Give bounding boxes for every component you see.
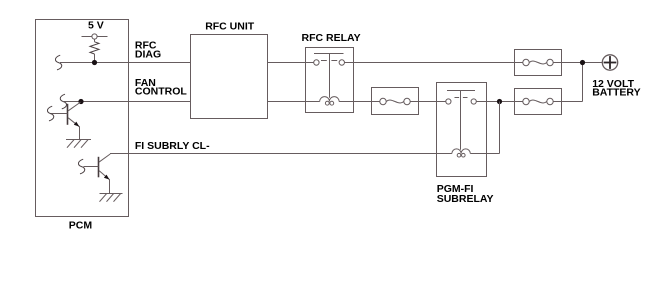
RFC relay K1 box xyxy=(306,48,354,113)
wire break squiggle (Q1 base) xyxy=(47,106,53,121)
svg-text:SUBRELAY: SUBRELAY xyxy=(437,193,494,205)
svg-text:BATTERY: BATTERY xyxy=(592,87,640,99)
wire FAN CONTROL (PCM to RFC unit) xyxy=(64,101,191,103)
junction node (battery feed) xyxy=(580,60,585,65)
wire (fuse F1 to battery) xyxy=(553,62,602,64)
wire break squiggle (Q2 base) xyxy=(78,159,84,174)
wire RFC DIAG (PCM to RFC unit) xyxy=(60,62,190,64)
svg-text:PCM: PCM xyxy=(69,219,93,231)
PGM-FI subrelay K2 box xyxy=(437,83,487,177)
RFC unit U1 box xyxy=(191,35,268,119)
wire (RFC relay contact to fuse F1) xyxy=(345,62,523,64)
wire (RFC unit to RFC relay coil) xyxy=(268,101,320,103)
fuse F2 xyxy=(372,88,419,115)
PCM box xyxy=(36,20,129,217)
ground (Q1 emitter) xyxy=(66,140,91,148)
wire (subrelay contact to fuse F3) xyxy=(476,101,523,103)
wire break squiggle (FAN CONTROL) xyxy=(60,94,66,109)
svg-text:DIAG: DIAG xyxy=(135,48,161,60)
transistor Q1 (fan control driver) xyxy=(51,102,81,139)
label PGM-FI SUBRELAY xyxy=(437,183,494,205)
fuse F1 xyxy=(515,50,562,76)
transistor Q2 (FI subrelay driver) xyxy=(84,154,111,194)
junction node (Q1 collector to FAN CONTROL wire) xyxy=(78,99,83,104)
wire (fuse F3 output, up to battery node) xyxy=(553,63,582,102)
label FAN CONTROL xyxy=(135,77,187,98)
RFC relay coil xyxy=(320,97,339,105)
wire (RFC unit to RFC relay contact) xyxy=(268,62,314,64)
resistor (5 V pull-up) xyxy=(90,39,99,62)
svg-text:RFC RELAY: RFC RELAY xyxy=(302,32,361,44)
battery positive terminal xyxy=(602,55,617,70)
RFC relay contact xyxy=(314,54,345,98)
label RFC DIAG xyxy=(135,40,161,61)
wire (fuse F2 to PGM-FI subrelay contact) xyxy=(410,101,446,103)
ground (Q2 emitter) xyxy=(100,194,123,202)
junction node (resistor to RFC DIAG wire) xyxy=(92,60,97,65)
svg-text:5 V: 5 V xyxy=(88,19,104,31)
wire break squiggle (RFC DIAG) xyxy=(55,55,61,70)
fuse F3 xyxy=(515,89,562,115)
5 V supply terminal xyxy=(82,19,108,39)
label 12 VOLT BATTERY xyxy=(592,78,640,99)
wire (subrelay coil return, up to output node) xyxy=(470,102,499,154)
svg-text:FI SUBRLY CL-: FI SUBRLY CL- xyxy=(135,140,210,152)
PGM-FI subrelay coil xyxy=(452,149,470,157)
svg-text:CONTROL: CONTROL xyxy=(135,86,187,98)
wire FI SUBRLY CL- (Q2 collector to PGM-FI subrelay coil) xyxy=(110,153,452,155)
PGM-FI subrelay contact xyxy=(446,91,477,150)
wire (RFC relay coil to fuse F2) xyxy=(339,101,380,103)
svg-text:RFC UNIT: RFC UNIT xyxy=(205,21,255,33)
junction node (subrelay output) xyxy=(497,99,502,104)
